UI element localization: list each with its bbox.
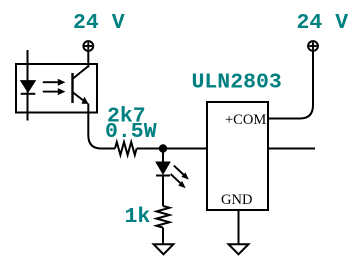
wire: emitter down and curve right to resistor — [88, 104, 115, 149]
resistor 2k7 — [115, 142, 137, 155]
svg-text:ULN2803: ULN2803 — [192, 71, 282, 95]
wire: resistor to ULN input — [137, 148, 207, 150]
optocoupler input pin wire — [27, 50, 29, 121]
LED emission arrows — [171, 166, 189, 189]
svg-text:GND: GND — [221, 192, 252, 208]
label 1k — [125, 205, 151, 229]
wire: ULN output to right — [268, 148, 315, 150]
label 24 V right — [297, 11, 349, 35]
wire: right supply down and curve into +COM pin — [268, 51, 313, 119]
LED D1 — [156, 162, 170, 176]
light coupling arrows — [43, 79, 66, 95]
svg-text:+COM: +COM — [225, 112, 266, 128]
ground right — [229, 244, 249, 254]
label ULN2803 — [192, 71, 282, 95]
supply terminal right — [308, 41, 318, 51]
supply terminal left — [83, 41, 93, 51]
label 24 V left — [73, 11, 125, 35]
pin label GND — [221, 192, 252, 208]
optocoupler box — [16, 64, 97, 113]
svg-text:1k: 1k — [125, 205, 151, 229]
svg-text:24 V: 24 V — [297, 11, 349, 35]
wire: 1k to ground — [162, 228, 164, 245]
node junction — [159, 144, 167, 152]
label 0.5W — [105, 120, 157, 144]
wire: left supply to phototransistor collector — [87, 51, 89, 68]
pin label +COM — [225, 112, 266, 128]
IC ULN2803 box — [207, 102, 268, 210]
phototransistor — [73, 66, 89, 104]
wire: ULN GND pin down — [238, 210, 240, 245]
LED inside optocoupler — [21, 81, 36, 94]
ground left — [154, 244, 174, 254]
wire: LED to 1k resistor — [162, 176, 164, 207]
resistor 1k — [157, 206, 170, 228]
svg-text:24 V: 24 V — [73, 11, 125, 35]
wire: junction down to LED — [162, 149, 164, 163]
label 2k7 — [107, 105, 146, 129]
